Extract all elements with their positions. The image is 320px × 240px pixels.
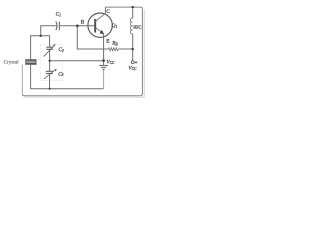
svg-text:C: C	[106, 9, 110, 15]
svg-text:E: E	[106, 39, 109, 45]
wire divider tap to emitter node	[50, 60, 104, 62]
dashed box around C2 C3	[40, 45, 62, 81]
svg-text:RFC: RFC	[133, 24, 141, 29]
resistor RB zigzag	[108, 48, 118, 51]
svg-text:Crystal: Crystal	[4, 60, 20, 66]
inductor RFC coil	[130, 18, 132, 34]
crystal Y1	[25, 60, 36, 64]
capacitor C1	[56, 22, 60, 31]
capacitor C2 (variable)	[46, 47, 53, 49]
wire collector to top-right	[105, 7, 142, 9]
frame shadow	[24, 10, 145, 97]
outer supply loop (top wire, right side, bottom, left side)	[22, 7, 142, 96]
capacitor C3 (variable)	[46, 71, 53, 73]
wire RFC branch top	[132, 7, 134, 18]
wire C3 bottom	[49, 74, 51, 89]
junction dots	[40, 6, 134, 90]
wire crystal network top rail	[31, 36, 50, 60]
wire RFC bottom to terminal	[132, 34, 134, 61]
wire RB right to rail	[119, 48, 133, 50]
emitter arrowhead	[100, 30, 105, 35]
svg-text:B: B	[81, 19, 85, 25]
wire C1/base horizontal	[41, 26, 57, 36]
wire C2 bottom to C3 top	[49, 49, 51, 71]
transistor Q1	[88, 13, 112, 37]
wire bottom	[22, 94, 140, 96]
terminal +Vcc	[131, 61, 134, 64]
wire emitter down	[103, 34, 105, 65]
wire ground rise	[103, 69, 105, 88]
wire right side down	[140, 9, 142, 96]
wire collector up	[104, 7, 106, 13]
ground	[99, 65, 108, 69]
wire crystal bottom lead	[31, 64, 104, 88]
wire C1 right to base	[60, 25, 95, 27]
wire base down to RB	[77, 26, 108, 49]
arrow C2	[44, 46, 54, 57]
arrow C3	[44, 70, 55, 79]
wire left side partial	[21, 65, 23, 94]
